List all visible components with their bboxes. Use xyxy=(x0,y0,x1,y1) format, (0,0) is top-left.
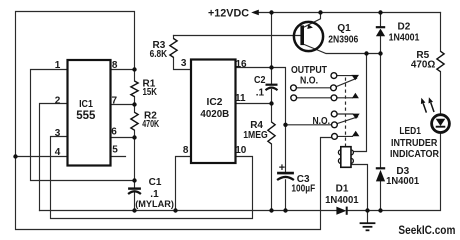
wire R3 top lead xyxy=(173,36,175,39)
node ground junction xyxy=(365,208,369,212)
svg-text:8: 8 xyxy=(112,60,118,71)
diode D1 xyxy=(336,207,346,215)
resistor R4 xyxy=(268,122,275,144)
capacitor C2 xyxy=(266,85,278,91)
svg-text:LED1: LED1 xyxy=(399,126,421,137)
wire IC1 pin1 to C1 top node xyxy=(31,70,135,181)
resistor R2 xyxy=(131,112,138,130)
svg-text:3: 3 xyxy=(181,58,187,69)
node D3 bottom rail xyxy=(378,208,382,212)
node C3 bottom rail xyxy=(283,208,287,212)
svg-text:4: 4 xyxy=(55,147,61,158)
diode D3 xyxy=(376,168,385,181)
relay contact circle c5 (pole) xyxy=(332,122,338,128)
wire IC2 pin11 xyxy=(236,103,272,105)
relay contact circle c6 xyxy=(332,134,338,140)
node C1 bottom rail xyxy=(132,208,136,212)
wire feedback loop left and top: pin4 node up and over to R1 top xyxy=(16,12,135,157)
transistor Q1 xyxy=(294,22,323,51)
svg-text:6.8K: 6.8K xyxy=(150,49,168,60)
node IC1 pin7 / R1-R2 xyxy=(132,102,136,106)
svg-text:4020B: 4020B xyxy=(200,108,229,120)
ground symbol xyxy=(360,223,376,230)
wire relay contact row C: left terminal to c3 xyxy=(297,97,331,99)
svg-text:6: 6 xyxy=(111,127,117,138)
capacitor C3 (electrolytic) xyxy=(277,173,294,180)
svg-text:C2: C2 xyxy=(254,75,266,86)
wire bottom rail1 left of D1 xyxy=(40,210,337,212)
diode D2 xyxy=(376,27,385,36)
wire Q1 collector to collector node xyxy=(305,45,381,54)
svg-text:16: 16 xyxy=(235,59,247,70)
svg-text:INTRUDER: INTRUDER xyxy=(391,138,438,149)
svg-text:SeekIC.com: SeekIC.com xyxy=(398,225,455,237)
wire D2 anode down through collector node to D3 cathode xyxy=(380,36,382,168)
node emitter top rail junction xyxy=(318,10,322,14)
node collector / coil xyxy=(364,51,368,55)
wire Q1 emitter up to top rail xyxy=(305,13,321,27)
relay contact circle c4 xyxy=(331,111,337,117)
relay contact circle c1 xyxy=(331,73,337,79)
wire C3 bottom plate to rail xyxy=(285,180,287,211)
wire IC2 pin16 to +12 column, corner, down to relay pole feed and C3 xyxy=(236,68,286,173)
relay coil K1 xyxy=(338,147,353,168)
wire IC1 pin7 to R1-R2 junction xyxy=(111,104,135,106)
svg-text:1N4001: 1N4001 xyxy=(386,175,419,187)
resistor R5 xyxy=(437,51,444,71)
wire bottom feedback loop: pin4 node down, along bottom, up to relay contact c6 xyxy=(16,138,332,230)
svg-text:2N3906: 2N3906 xyxy=(328,34,358,46)
svg-text:+: + xyxy=(279,162,285,174)
wire IC1 pin4 to left loop node xyxy=(16,156,68,158)
relay fixed contact arrow D (down) xyxy=(352,114,360,119)
node collector / D2-D3 xyxy=(378,51,382,55)
svg-text:1MEG: 1MEG xyxy=(243,130,268,141)
wire D3 anode to rail xyxy=(380,181,382,210)
IC1 555 box xyxy=(68,60,111,166)
IC2 4020B box xyxy=(191,60,236,164)
svg-text:IC2: IC2 xyxy=(207,97,223,108)
wire relay contact row D to NO arrow xyxy=(337,113,353,115)
svg-text:N.O.: N.O. xyxy=(300,76,318,87)
svg-text:N.O.: N.O. xyxy=(313,116,331,127)
svg-text:15K: 15K xyxy=(143,87,158,98)
wire +12 column from top rail to C2 top plate xyxy=(271,13,273,85)
wire IC2 pin8 down to rail xyxy=(176,157,192,211)
svg-text:10: 10 xyxy=(235,145,247,156)
svg-text:INDICATOR: INDICATOR xyxy=(390,149,440,160)
wire top-right corner down to R5 top xyxy=(440,13,442,52)
wire relay contact row C to NC arrow xyxy=(337,97,353,99)
node IC2 pin8 rail xyxy=(173,208,177,212)
node relay pole feed xyxy=(283,123,287,127)
svg-text:1N4001: 1N4001 xyxy=(325,194,359,206)
wire IC1 pin2 down to bottom rail xyxy=(40,104,68,211)
wire +12 top rail xyxy=(257,12,441,14)
wire C2 bottom to R4 top through pin11 node xyxy=(271,90,273,123)
wire IC1 pin5 stub xyxy=(111,156,126,158)
svg-text:7: 7 xyxy=(112,95,118,106)
svg-text:OUTPUT: OUTPUT xyxy=(291,65,327,76)
wire relay contact row F to NC arrow xyxy=(337,135,352,137)
LED1 xyxy=(421,97,450,132)
svg-text:470Ω: 470Ω xyxy=(411,60,435,71)
svg-text:470K: 470K xyxy=(142,119,160,130)
svg-text:8: 8 xyxy=(183,145,189,156)
node IC1 pin8 / R1 top xyxy=(132,67,136,71)
node IC2 pin11 / C2-R4 xyxy=(269,101,273,105)
svg-text:(MYLAR): (MYLAR) xyxy=(135,199,174,210)
svg-text:.1: .1 xyxy=(256,87,265,98)
svg-text:2: 2 xyxy=(55,95,61,106)
node +12VDC rail junction xyxy=(269,10,273,14)
wire R2 bottom to C1 top plate xyxy=(134,130,136,187)
svg-text:D1: D1 xyxy=(336,183,349,194)
node IC1 pin6 / R2 bottom xyxy=(132,135,136,139)
wire D2 cathode to top rail xyxy=(380,13,382,28)
+12VDC supply arrow xyxy=(251,10,259,16)
wire R3 bottom lead to IC2 pin3 xyxy=(174,57,192,69)
svg-text:+12VDC: +12VDC xyxy=(208,8,249,20)
svg-text:1: 1 xyxy=(55,60,61,71)
svg-text:3: 3 xyxy=(55,128,61,139)
wire relay blade 1 xyxy=(336,78,356,86)
wire R1 top lead xyxy=(134,70,136,82)
resistor R1 xyxy=(131,81,138,97)
wire relay pole row E to C3 top node xyxy=(286,124,332,126)
relay fixed contact arrow C (up) xyxy=(352,93,359,98)
capacitor C1 xyxy=(128,189,141,194)
svg-text:1N4001: 1N4001 xyxy=(389,32,420,44)
wire collector node down to relay coil top terminal xyxy=(351,54,367,152)
wire R4 bottom to rail xyxy=(271,144,273,211)
node IC2 pin16 +12 xyxy=(269,65,273,69)
svg-text:11: 11 xyxy=(235,93,246,104)
wire C1 bottom plate to rail xyxy=(134,192,136,210)
wire relay coil bottom terminal to ground node xyxy=(351,165,368,211)
node D2 top rail junction xyxy=(378,10,382,14)
wire R1 bottom to R2 top through pin7 node xyxy=(134,97,136,113)
wire bottom rail1 right of D1 up to LED bottom xyxy=(348,133,441,211)
relay fixed contact arrow A (down) xyxy=(351,75,359,80)
relay mechanical dashed link xyxy=(345,78,347,147)
svg-text:555: 555 xyxy=(76,108,96,122)
wire IC1 pin6 to R2 bottom xyxy=(111,137,135,139)
relay output terminal circle row B xyxy=(291,85,297,91)
relay contact circle c3 xyxy=(331,95,337,101)
relay contact circle c2 (pole) xyxy=(331,85,337,91)
wire R3 top to Q1 base xyxy=(174,35,301,37)
relay output terminal circle row C xyxy=(291,95,297,101)
resistor R3 xyxy=(170,39,177,58)
wire relay blade 2 xyxy=(337,117,358,124)
svg-text:100µF: 100µF xyxy=(291,184,315,195)
svg-text:Q1: Q1 xyxy=(337,23,351,34)
wire ground stem xyxy=(367,211,369,223)
wire R5 bottom to LED top xyxy=(440,72,442,115)
wire relay contact row A to NO arrow xyxy=(337,75,353,77)
node C1 top xyxy=(132,178,136,182)
svg-text:5: 5 xyxy=(112,145,118,156)
wire relay contact row B: left terminal to pole c2 xyxy=(297,87,331,89)
wire IC1 pin8 to R1 top xyxy=(111,69,135,71)
node R4 bottom rail xyxy=(269,208,273,212)
svg-text:C1: C1 xyxy=(149,177,162,188)
node IC1 pin4 left loop xyxy=(13,154,17,158)
relay fixed contact arrow F (up) xyxy=(352,131,359,136)
wire IC1 pin3 along rail2 up to IC2 pin10 xyxy=(51,137,253,219)
